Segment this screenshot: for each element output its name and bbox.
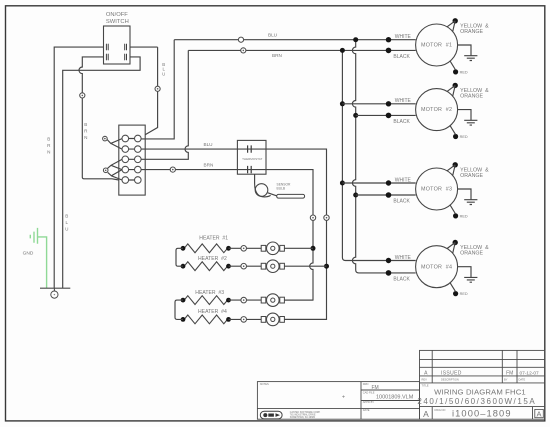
svg-text:HEATER #4: HEATER #4 — [198, 309, 227, 315]
svg-text:NOTES: NOTES — [260, 382, 269, 386]
motor M2 red lead — [450, 126, 458, 139]
wire terminal row4 to thermostat BRN then down with jump — [141, 170, 313, 301]
junction heater2 feed — [324, 264, 329, 269]
wire BRN main to motor 1 — [188, 49, 415, 51]
splice balloon left 2 — [103, 168, 108, 173]
svg-text:WIRING DIAGRAM FHC1: WIRING DIAGRAM FHC1 — [434, 388, 526, 397]
svg-text:RED: RED — [460, 214, 468, 218]
svg-text:BLACK: BLACK — [393, 276, 410, 282]
svg-text:B: B — [65, 214, 68, 219]
node motor4 black terminal — [386, 270, 392, 276]
label BRN vertical 2 — [84, 122, 88, 140]
junction bus A motor2 — [340, 101, 345, 106]
wire BRN drop to terminal row3 with jump — [141, 50, 188, 159]
wire terminal row1 to BLU top feed — [141, 40, 174, 139]
ground motor2 — [458, 110, 478, 126]
svg-text:B: B — [47, 137, 50, 142]
wire bus A brown vertical — [342, 50, 415, 260]
svg-text:240/1/50/60/3600W/15A: 240/1/50/60/3600W/15A — [417, 397, 536, 406]
svg-text:B: B — [84, 122, 87, 127]
thermal cutout TC2 — [261, 260, 284, 273]
wire from switch right pin 1 — [126, 46, 157, 48]
junction bus B motor3 — [353, 193, 358, 198]
thermal cutout TC4 — [261, 313, 284, 326]
svg-text:GND: GND — [23, 251, 34, 257]
motor M1 red lead — [450, 61, 458, 74]
svg-text:WHITE: WHITE — [395, 177, 412, 183]
splice balloon on BRN wire — [170, 167, 175, 172]
motor M1 yellow/orange lead — [447, 18, 458, 31]
splice balloon h1 — [241, 246, 247, 252]
label sheet A box — [535, 409, 544, 418]
label YELLOW & ORANGE m2 — [460, 88, 489, 100]
thermal cutout TC1 — [261, 242, 284, 255]
svg-text:U: U — [162, 71, 165, 76]
svg-text:L: L — [66, 220, 69, 225]
svg-text:i1000–1809: i1000–1809 — [452, 409, 512, 419]
label revision headers — [422, 378, 526, 382]
wire from switch left pin 2 to terminal block with jump — [79, 57, 119, 180]
svg-text:SOMETOWN, SC 29680: SOMETOWN, SC 29680 — [290, 417, 316, 419]
wire white motor3 — [342, 182, 415, 184]
node motor2 white terminal — [386, 101, 391, 106]
sensor coil — [255, 174, 271, 197]
svg-text:DESCRIPTION: DESCRIPTION — [441, 378, 459, 382]
svg-text:FM: FM — [372, 385, 379, 391]
splice balloon h3 — [241, 297, 247, 303]
sensor bulb — [268, 193, 305, 198]
wire BRN bus from switch down left side — [54, 47, 105, 288]
wire bracket heaters 3-4 — [175, 300, 183, 319]
svg-text:ORANGE: ORANGE — [460, 94, 483, 100]
svg-text:781 INDUSTRIAL DRIVE: 781 INDUSTRIAL DRIVE — [290, 414, 316, 417]
svg-text:ORANGE: ORANGE — [460, 29, 483, 35]
svg-text:07-12-07: 07-12-07 — [520, 371, 540, 377]
svg-text:N: N — [84, 135, 87, 140]
label SENSOR BULB — [277, 183, 292, 191]
svg-text:APPD BY: APPD BY — [363, 400, 375, 404]
svg-text:N: N — [47, 150, 50, 155]
logo — [260, 411, 282, 419]
motor M3 — [416, 168, 458, 210]
wire heater1 out — [229, 247, 314, 249]
splice balloon — [155, 86, 160, 91]
svg-text:ORANGE: ORANGE — [460, 173, 483, 179]
splice balloon h2 — [241, 263, 247, 269]
splice balloon h4 — [241, 317, 247, 323]
wire terminal row2 to thermostat BLU — [141, 149, 326, 319]
svg-text:BLU: BLU — [268, 33, 278, 38]
svg-text:BLU: BLU — [203, 142, 213, 147]
motor M2 yellow/orange lead — [447, 83, 458, 96]
ground GND green symbol — [30, 228, 37, 244]
svg-text:U: U — [65, 227, 68, 232]
svg-text:10001809.VLM: 10001809.VLM — [376, 395, 414, 401]
label revision row A ISSUED — [424, 371, 539, 377]
svg-text:A: A — [536, 410, 541, 419]
wire green ground — [38, 237, 47, 288]
thermal cutout TC3 — [261, 294, 284, 307]
wire heater4 out — [229, 318, 327, 320]
svg-text:BRN: BRN — [272, 53, 282, 58]
svg-text:MOTOR #3: MOTOR #3 — [421, 187, 452, 193]
title block left section — [257, 382, 419, 420]
svg-text:HEATER #2: HEATER #2 — [198, 256, 227, 262]
svg-text:FM: FM — [506, 371, 513, 377]
heater H4 — [181, 315, 231, 324]
svg-text:A: A — [423, 409, 429, 419]
svg-text:HEATER #3: HEATER #3 — [195, 290, 224, 296]
svg-text:BRN: BRN — [204, 162, 214, 167]
motor M2 — [416, 89, 458, 131]
splice balloon right drop 1 — [310, 215, 315, 220]
label YELLOW & ORANGE m4 — [460, 245, 489, 257]
wire BLU bus from switch right pin down left side — [63, 57, 140, 288]
svg-text:WHITE: WHITE — [395, 98, 412, 104]
motor M4 — [416, 246, 458, 288]
svg-text:BLACK: BLACK — [393, 54, 410, 60]
heater H3 — [181, 296, 231, 305]
svg-text:+: + — [342, 394, 345, 400]
motor M3 red lead — [450, 205, 458, 218]
junction bus B top — [353, 37, 358, 42]
splice balloon on BLU main — [238, 37, 243, 42]
node motor1 black terminal — [386, 48, 392, 54]
wire heater2 out — [229, 265, 327, 267]
svg-text:MOTOR #2: MOTOR #2 — [421, 107, 452, 113]
label BLU vertical 3 — [162, 62, 165, 76]
svg-text:WHITE: WHITE — [395, 255, 412, 261]
svg-text:ISSUED: ISSUED — [441, 371, 462, 377]
terminal block TB1 — [119, 125, 145, 195]
node motor4 white terminal — [386, 258, 391, 263]
svg-text:BLACK: BLACK — [393, 119, 410, 125]
svg-text:MOTOR #4: MOTOR #4 — [421, 264, 452, 270]
motor M1 — [416, 24, 458, 66]
svg-text:SWITCH: SWITCH — [106, 19, 129, 25]
wire fork to rows 1-2 — [107, 139, 122, 150]
node motor2 black terminal — [386, 113, 392, 119]
svg-text:WHITE: WHITE — [395, 34, 412, 40]
svg-text:BY: BY — [504, 378, 508, 382]
svg-text:DRN: DRN — [363, 382, 369, 386]
title block right section grid — [420, 350, 545, 419]
node motor1 white terminal — [386, 37, 391, 42]
wire fork to rows 3-4 — [108, 159, 122, 169]
wire fork to rows 4-5 — [108, 170, 122, 180]
label CAD FILE / 10001809.VLM — [363, 390, 414, 400]
ground motor1 — [458, 45, 478, 61]
splice balloon on wire — [80, 93, 85, 98]
node motor3 white terminal — [386, 180, 391, 185]
motor M4 yellow/orange lead — [447, 240, 458, 253]
junction heater1 feed — [311, 246, 316, 251]
svg-text:DATE: DATE — [363, 408, 370, 412]
svg-text:REV: REV — [422, 378, 428, 382]
ground motor3 — [458, 189, 478, 205]
svg-text:RED: RED — [460, 135, 468, 139]
svg-text:THERMOSTAT: THERMOSTAT — [242, 157, 262, 161]
svg-text:CANTEK SOFTWARE CORP.: CANTEK SOFTWARE CORP. — [290, 411, 321, 414]
svg-text:HEATER #1: HEATER #1 — [199, 235, 228, 241]
svg-text:RED: RED — [460, 292, 468, 296]
junction bus A top — [340, 48, 345, 53]
splice balloon left 1 — [103, 136, 108, 141]
splice balloon on BRN main — [241, 48, 246, 53]
motor M3 yellow/orange lead — [447, 162, 458, 175]
heater H1 — [181, 244, 231, 253]
svg-text:ON/OFF: ON/OFF — [106, 12, 128, 18]
svg-text:MOTOR #1: MOTOR #1 — [421, 43, 452, 49]
junction bus A motor3 — [340, 181, 345, 186]
svg-text:DWG NO: DWG NO — [435, 408, 446, 412]
label YELLOW & ORANGE m1 — [460, 24, 489, 36]
svg-text:ORANGE: ORANGE — [460, 251, 483, 257]
wire black motor2 — [356, 114, 416, 116]
wire white motor2 — [342, 103, 415, 105]
wire vertical to terminal row 1 — [141, 47, 158, 137]
svg-text:RED: RED — [460, 70, 468, 74]
thermostat — [237, 140, 266, 174]
switch S1 ON/OFF — [104, 26, 131, 64]
wire black motor3 — [356, 194, 416, 196]
svg-text:CAD FILE: CAD FILE — [363, 390, 375, 394]
splice balloon right drop 2 — [324, 215, 329, 220]
node power cord terminal — [40, 288, 70, 298]
motor M4 red lead — [450, 283, 458, 296]
wire bracket heaters 1-2 — [176, 248, 183, 266]
label BRN vertical — [47, 137, 51, 155]
label DRN / FM — [363, 382, 379, 391]
node motor3 black terminal — [386, 192, 392, 198]
label YELLOW & ORANGE m3 — [460, 168, 489, 180]
junction bus B motor2 — [353, 113, 358, 118]
svg-text:TITLE: TITLE — [422, 384, 429, 388]
label ON/OFF SWITCH — [106, 12, 129, 25]
svg-text:DATE: DATE — [519, 378, 526, 382]
ground motor4 — [458, 267, 478, 283]
wire bus B blue vertical with jumps — [352, 40, 415, 273]
svg-text:BULB: BULB — [277, 186, 286, 190]
label logo address — [290, 411, 321, 419]
svg-text:BLACK: BLACK — [393, 199, 410, 205]
heater H2 — [181, 262, 231, 271]
label BLU vertical — [65, 214, 68, 232]
wire BLU main to motor 1 — [174, 39, 416, 41]
wire heater3 out — [229, 299, 314, 301]
